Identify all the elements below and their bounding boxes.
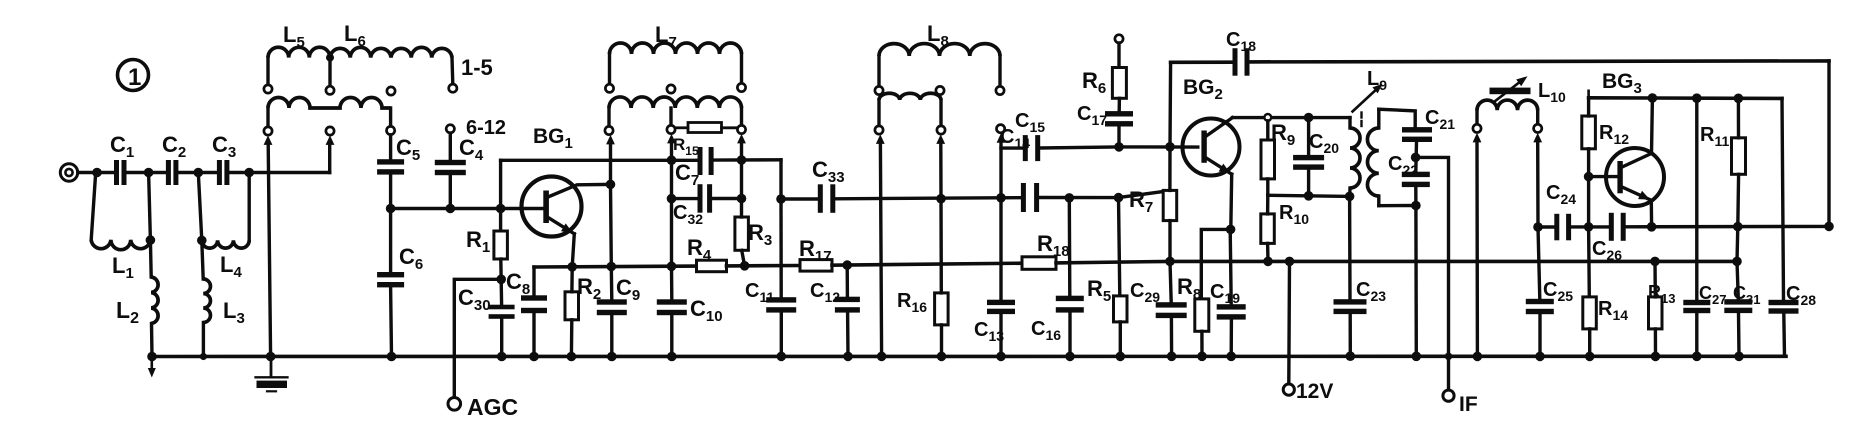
svg-text:1: 1 xyxy=(128,64,141,91)
capacitor C29 xyxy=(1156,302,1187,307)
wire C31 lead xyxy=(1737,261,1738,299)
socket pin row2-c xyxy=(387,126,395,134)
wire L10-a to ground xyxy=(1475,142,1479,356)
capacitor C29 lead xyxy=(1170,261,1171,302)
node emitter split xyxy=(1226,225,1236,235)
node L1-L2 xyxy=(146,235,156,245)
wire C16 column xyxy=(1068,198,1072,296)
node bus C10 xyxy=(667,262,677,272)
capacitor C8 xyxy=(521,295,547,300)
circled label 1 xyxy=(118,60,149,91)
wire C27 column xyxy=(1695,98,1698,300)
wire L4 right leg xyxy=(247,173,250,241)
wire C12 lead xyxy=(846,265,850,297)
supply bus segment R4-R17 xyxy=(727,264,801,268)
arrow plug L8-c xyxy=(997,133,1006,143)
node bus R3 xyxy=(740,261,750,271)
node rail C27 xyxy=(1692,352,1702,362)
inductor L3 xyxy=(203,279,210,323)
node rail C29 xyxy=(1167,352,1177,362)
arrow plug row2-a xyxy=(264,135,273,145)
node rail L10-a xyxy=(1473,352,1483,362)
node L9 primary bottom xyxy=(1345,192,1355,202)
wire C25 column xyxy=(1538,227,1540,299)
supply bus segment R17-R18 xyxy=(832,263,1022,265)
resistor R6 xyxy=(1112,68,1126,99)
node C1-C2 (L2 tap) xyxy=(144,168,154,178)
node rail160 L7-b xyxy=(667,155,677,165)
wire L8 secondary left leg xyxy=(877,100,880,126)
capacitor C27 xyxy=(1683,300,1710,305)
node bus R13 xyxy=(1650,257,1660,267)
wire R9 lead xyxy=(1266,121,1269,140)
wire L1 left leg xyxy=(91,173,96,240)
capacitor C24 xyxy=(1554,214,1559,241)
node C3-L4 xyxy=(244,168,254,178)
wire L8 primary right leg xyxy=(998,56,1001,86)
node bus C9 xyxy=(607,262,617,272)
terminal R6 top xyxy=(1115,35,1123,43)
wire R7 leads xyxy=(1168,147,1171,191)
capacitor C2 xyxy=(166,160,171,185)
node rail C16 xyxy=(1065,352,1075,362)
node rail2 R11 xyxy=(1734,94,1744,104)
wire C4 to base wire xyxy=(449,175,452,209)
wire C30 to rail xyxy=(500,319,503,357)
wire C29 to rail xyxy=(1170,318,1174,356)
wire C10 to rail xyxy=(670,315,673,357)
inductor L7 primary xyxy=(610,43,742,54)
node C32 left xyxy=(667,194,677,204)
wire emitter column xyxy=(1229,174,1233,229)
arrow plug L7-a xyxy=(606,135,615,145)
capacitor C17 xyxy=(1105,111,1133,116)
wire C8 to rail xyxy=(532,313,535,357)
wire L8-c to C15 line xyxy=(999,142,1002,197)
node rail C6 xyxy=(387,352,397,362)
wire L8 primary left leg xyxy=(877,56,880,86)
resistor R2 xyxy=(565,292,579,320)
inductor L5/L6 secondary xyxy=(268,98,391,109)
socket pin L8 row1-b xyxy=(936,86,944,94)
inductor L9 secondary xyxy=(1367,128,1378,196)
capacitor C31 xyxy=(1724,299,1752,304)
node AGC branch xyxy=(496,275,506,285)
resistor R16 xyxy=(935,293,949,325)
svg-text:12V: 12V xyxy=(1296,380,1333,403)
resistor R7 xyxy=(1163,190,1177,220)
wire L5-L6 tap leg xyxy=(328,58,331,86)
wire R11 leads xyxy=(1737,98,1740,138)
node bus R7 xyxy=(1165,257,1175,267)
capacitor C26 xyxy=(1609,213,1614,241)
node C17 tap xyxy=(1114,142,1124,152)
C26 line xyxy=(1589,225,1610,228)
socket pin L10-b xyxy=(1534,124,1542,132)
transistor BG2 xyxy=(1183,119,1240,176)
wire R8 to rail xyxy=(1200,331,1203,356)
socket pin L8 row1-a xyxy=(875,86,883,94)
capacitor C28 xyxy=(1769,300,1799,305)
node R5 tap xyxy=(1114,193,1124,203)
capacitor C20 xyxy=(1293,155,1324,160)
node R12 bottom xyxy=(1584,222,1594,232)
capacitor C9 xyxy=(597,299,627,304)
C33 line right xyxy=(835,198,1021,199)
node rail R14 xyxy=(1585,352,1595,362)
wire L2 column xyxy=(149,173,152,278)
ground rail xyxy=(150,354,1786,358)
node rail C10 xyxy=(667,352,677,362)
wire L7 primary right leg xyxy=(740,54,743,83)
node rail R8 xyxy=(1197,352,1207,362)
arrow plug L7-c xyxy=(737,134,746,144)
collector rail2 xyxy=(1589,96,1782,100)
node C24 line start xyxy=(1533,222,1543,232)
node C21-C22 IF tap xyxy=(1411,153,1421,163)
capacitor C12 xyxy=(835,297,860,302)
capacitor C10 xyxy=(657,299,687,304)
BG2 emitter lead xyxy=(1206,158,1232,175)
node L9 secondary bottom xyxy=(1411,201,1421,211)
resistor R17 xyxy=(800,260,832,272)
inductor L4 xyxy=(202,240,249,248)
wire L7 secondary right leg xyxy=(740,108,743,125)
wire band-switch common to ground xyxy=(268,144,270,357)
socket pin L10-a xyxy=(1473,124,1481,132)
wire L10 right leg xyxy=(1536,110,1539,124)
wire C17 to base line xyxy=(1117,126,1120,147)
wire R5 column xyxy=(1119,198,1120,296)
wire secondary bottom to coil xyxy=(1379,204,1416,208)
capacitor C9 lead xyxy=(610,267,614,300)
wire R11 to bus end xyxy=(1735,227,1739,262)
wire C13 column xyxy=(999,198,1002,300)
wire C28 to rail end xyxy=(1782,314,1786,357)
wire C6 to rail xyxy=(389,287,393,356)
capacitor C4 xyxy=(435,160,466,165)
wire C20 top lead xyxy=(1307,118,1310,156)
socket pin L7 row2-b xyxy=(667,125,675,133)
node rail R13 xyxy=(1651,352,1661,362)
BG3 emitter lead xyxy=(1621,187,1651,201)
BG1 collector lead xyxy=(548,184,611,197)
C32 coupling line xyxy=(672,197,698,200)
node rail160 L7-c xyxy=(737,155,747,165)
capacitor C16 xyxy=(1056,296,1084,301)
wire 6-12 to C4 xyxy=(449,133,452,160)
collector tank rail xyxy=(501,159,698,162)
wire R14 to rail xyxy=(1588,329,1591,357)
inductor L8 secondary xyxy=(879,93,941,100)
wire C25 to rail xyxy=(1538,314,1541,356)
arrow plug L7-b xyxy=(667,134,676,144)
svg-text:IF: IF xyxy=(1459,393,1478,416)
terminal 6-12 xyxy=(446,125,454,133)
wire C28 column xyxy=(1782,98,1784,300)
L9 tuning arrow xyxy=(1353,87,1380,112)
socket pin L8 row1-c xyxy=(996,86,1004,94)
C14 line right xyxy=(1039,191,1169,198)
wire C9 to rail xyxy=(610,315,613,357)
top rail right column xyxy=(1827,61,1830,227)
wire secondary right leg xyxy=(389,108,392,126)
node rail R16 xyxy=(937,352,947,362)
wire C31 to rail xyxy=(1737,313,1741,356)
wire L7 primary left leg xyxy=(608,54,611,84)
capacitor C10 lead xyxy=(670,266,674,300)
node bus C12 xyxy=(842,260,852,270)
wire C18 column xyxy=(1168,62,1172,147)
node top rail join xyxy=(1824,222,1834,232)
C24 line mid xyxy=(1571,225,1589,228)
capacitor C30 xyxy=(489,305,515,310)
node rail R5 xyxy=(1116,352,1126,362)
C33 line left xyxy=(781,197,818,200)
capacitor C3 xyxy=(217,160,222,185)
resistor R18 xyxy=(1022,257,1056,270)
node rail IF xyxy=(1445,353,1453,361)
node rail C22 xyxy=(1412,352,1422,362)
node rail C23 xyxy=(1346,351,1356,361)
capacitor C8 lead xyxy=(532,267,535,296)
node collector xyxy=(606,180,616,190)
resistor R5 xyxy=(1114,296,1128,322)
wire C22 bottom xyxy=(1414,187,1417,206)
arrow plug L8-b xyxy=(936,134,945,144)
wire R5 to rail xyxy=(1119,322,1122,357)
node rail2 collector xyxy=(1648,93,1658,103)
capacitor C33 xyxy=(818,184,823,213)
node rail C19 xyxy=(1226,352,1236,362)
wire C3 to coil socket xyxy=(229,171,330,174)
wire C21-C22 xyxy=(1414,142,1418,172)
resistor R8 xyxy=(1195,299,1209,331)
node BG3 base xyxy=(1584,172,1594,182)
R9 tap circle xyxy=(1264,114,1271,121)
node base-R1 xyxy=(496,204,506,214)
wire R3 leads xyxy=(740,199,743,218)
capacitor C22 xyxy=(1402,172,1430,177)
wire socket to C5 xyxy=(389,135,392,160)
inductor L5 xyxy=(268,47,330,57)
inductor L9 primary xyxy=(1350,128,1360,188)
socket pin L7 row2-a xyxy=(605,126,613,134)
wire R6 lead xyxy=(1117,43,1120,68)
wire AGC lead xyxy=(454,279,501,397)
wire collector node to bus xyxy=(609,184,613,266)
wire L7-b column xyxy=(670,143,673,266)
node rail L3 xyxy=(200,353,207,360)
socket pin L8 row2-a xyxy=(875,126,883,134)
socket pin row1-c xyxy=(387,87,395,95)
wire R1 to C30 xyxy=(499,259,503,305)
node rail C13 xyxy=(996,352,1006,362)
wire 12V column xyxy=(1287,261,1291,383)
node rail2 C27 xyxy=(1692,93,1702,103)
BG3 collector lead xyxy=(1621,98,1652,168)
oscillator node segment xyxy=(1268,195,1350,196)
resistor R13 xyxy=(1649,297,1663,329)
capacitor C23 xyxy=(1334,299,1367,304)
inductor L6 xyxy=(330,47,452,57)
wire C16 to rail xyxy=(1068,312,1071,356)
resistor R10 xyxy=(1261,214,1275,244)
supply bus segment R18-end xyxy=(1056,261,1736,263)
wire input to C1 xyxy=(78,171,114,174)
capacitor C1 xyxy=(114,160,119,185)
wire R12 leads xyxy=(1587,98,1590,116)
wire R14 column xyxy=(1587,227,1591,297)
socket pin row1-b xyxy=(326,86,334,94)
node C18 tap xyxy=(1165,142,1175,152)
L10 tuning slug xyxy=(1490,88,1531,95)
wire L4 left leg / L3 column xyxy=(198,173,203,280)
wire C12 to rail xyxy=(846,312,850,356)
socket pin L8 row2-c xyxy=(997,125,1005,133)
resistor R9 xyxy=(1261,140,1275,179)
wire base col to C24 line xyxy=(1587,177,1590,227)
C15 base line left xyxy=(1001,146,1023,149)
wire C5 to base wire xyxy=(389,174,392,208)
wire L10 left leg xyxy=(1475,110,1478,124)
node R11 tap xyxy=(1733,222,1743,232)
capacitor C25 xyxy=(1526,299,1554,304)
antenna input terminal xyxy=(60,164,77,181)
wire emitter to bus xyxy=(572,234,574,267)
resistor R1 xyxy=(494,231,508,259)
rail start arrow xyxy=(151,357,154,370)
node L4-L3 xyxy=(197,236,207,246)
wire L8-b to R16 node xyxy=(939,144,943,199)
wire C1 to C2 xyxy=(127,171,167,174)
BG2 collector lead xyxy=(1206,118,1233,137)
socket pin L7 row2-c xyxy=(737,125,745,133)
wire L7 secondary left leg xyxy=(607,108,610,126)
terminal IF xyxy=(1443,390,1454,401)
svg-text:1-5: 1-5 xyxy=(461,55,493,80)
wire C11 to rail xyxy=(780,312,783,356)
C15 base line right xyxy=(1040,147,1198,148)
node C2-C3 (L3 tap) xyxy=(194,168,204,178)
BG1 emitter lead xyxy=(548,218,574,234)
wire L5 left leg xyxy=(266,58,269,85)
capacitor C21 xyxy=(1402,127,1432,132)
wire C27 to rail xyxy=(1695,313,1698,356)
inductor L10 xyxy=(1477,100,1538,110)
socket pin L7 row1-b xyxy=(667,85,675,93)
wire L7-c column upper xyxy=(740,143,743,198)
wire C6 column xyxy=(389,209,392,273)
inductor L8 primary xyxy=(879,44,1000,56)
node rail C12 xyxy=(843,352,853,362)
node C20 tap xyxy=(1304,113,1314,123)
socket pin row1-d xyxy=(449,84,457,92)
rail2 stub xyxy=(1587,91,1590,98)
socket pin L8 row2-b xyxy=(937,126,945,134)
wire L8-a to ground xyxy=(880,144,881,357)
wire R9 to node xyxy=(1266,179,1269,195)
wire R16 leads xyxy=(939,199,943,293)
node BG3 emitter tap xyxy=(1647,222,1657,232)
capacitor C32 xyxy=(698,184,703,213)
socket pin L7 row1-c xyxy=(737,83,745,91)
node rail L2 xyxy=(147,352,157,362)
node C32 right xyxy=(737,194,747,204)
capacitor C6 xyxy=(377,272,404,277)
node rail C25 xyxy=(1535,352,1545,362)
node rail R2 xyxy=(567,352,577,362)
node bus emitter xyxy=(567,262,577,272)
wire C22 to ground xyxy=(1414,206,1418,357)
wire secondary left leg xyxy=(266,108,269,127)
resistor R15 xyxy=(688,123,722,133)
node C16 tap xyxy=(1065,193,1075,203)
wire IF branch xyxy=(1416,157,1449,389)
node R16 tap xyxy=(936,194,946,204)
node rail C31 xyxy=(1734,352,1744,362)
capacitor C11 xyxy=(766,297,796,302)
resistor R3 xyxy=(735,217,749,250)
wire R2 leads xyxy=(570,267,574,292)
BG2 collector line xyxy=(1233,116,1351,119)
transistor BG3 xyxy=(1606,148,1664,206)
svg-text:AGC: AGC xyxy=(467,394,518,420)
node base-C5 xyxy=(386,204,396,214)
capacitor C13 xyxy=(987,300,1015,305)
wire C2 to C3 xyxy=(178,171,217,174)
node rail L8-a xyxy=(877,352,887,362)
node C20 bottom xyxy=(1304,191,1314,201)
inductor L1 xyxy=(91,240,150,250)
wire L6 right leg xyxy=(450,58,454,84)
wire C20 bottom lead xyxy=(1307,170,1310,196)
wire C13 to rail xyxy=(999,314,1002,357)
capacitor C5 xyxy=(377,159,404,164)
wire rail160 to R1 top xyxy=(499,160,502,231)
wire base to bar xyxy=(1589,175,1618,178)
wire emitter to C26 line xyxy=(1650,200,1654,227)
ground symbol xyxy=(270,357,273,377)
wire L3 to ground rail xyxy=(202,323,205,357)
node rail C11 xyxy=(777,352,787,362)
arrow plug row2-b xyxy=(326,135,335,145)
wire R6 to C17 xyxy=(1117,98,1121,111)
arrow plug L8-a xyxy=(876,134,885,144)
node rail ground symbol xyxy=(266,352,276,362)
arrow plug L10-b xyxy=(1533,133,1542,143)
C24 line left xyxy=(1538,225,1555,228)
node rail C30 xyxy=(497,352,507,362)
L10 tuning arrow xyxy=(1494,80,1522,102)
capacitor C18 xyxy=(1233,48,1238,75)
C26 line right xyxy=(1625,225,1829,229)
node bus R10 xyxy=(1263,257,1273,267)
wire C19 to rail xyxy=(1229,319,1233,356)
capacitor C15 xyxy=(1023,135,1028,161)
inductor L2 xyxy=(151,277,158,324)
wire C23 column xyxy=(1348,196,1352,299)
node C13 tap xyxy=(996,193,1006,203)
resistor R11 xyxy=(1732,138,1746,175)
socket pin row2-b xyxy=(326,127,334,135)
socket pin L7 row1-a xyxy=(605,84,613,92)
top feedback rail right xyxy=(1249,61,1829,62)
terminal 12V xyxy=(1283,384,1294,395)
node rail C8 xyxy=(529,352,539,362)
socket pin row2-a xyxy=(264,127,272,135)
resistor R14 xyxy=(1583,297,1597,329)
